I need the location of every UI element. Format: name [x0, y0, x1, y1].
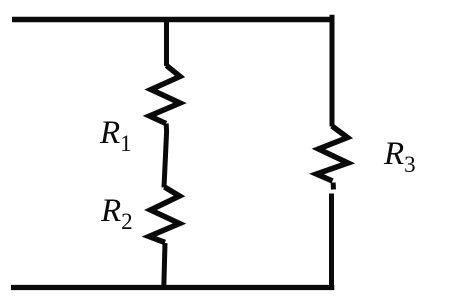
wire between R1 and R2	[164, 124, 167, 188]
label R2	[101, 195, 133, 228]
wire bottom horizontal	[11, 285, 334, 290]
wire R3 small dash	[331, 183, 336, 190]
resistor R2	[149, 187, 180, 243]
wire middle branch top lead	[164, 17, 169, 66]
wire R3 bottom lead	[329, 194, 334, 288]
wire top horizontal	[12, 17, 334, 23]
wire R2 bottom lead	[164, 243, 165, 287]
wire right branch top lead	[330, 15, 335, 127]
resistor R1	[150, 66, 181, 124]
label R3	[384, 138, 416, 171]
resistor R3	[317, 126, 349, 181]
label R1	[100, 117, 132, 150]
